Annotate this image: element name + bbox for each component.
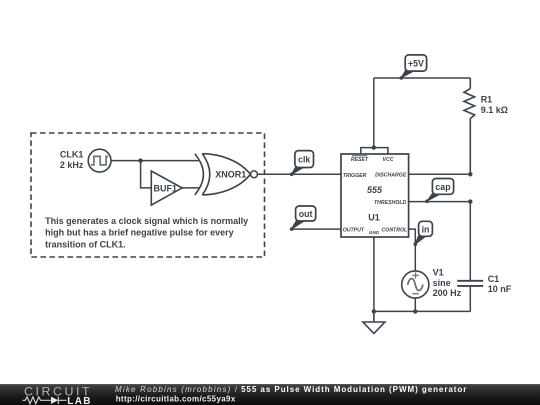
dashed annotation box	[31, 133, 265, 257]
note text	[45, 216, 248, 249]
footer bar	[0, 384, 540, 405]
label R1 9.1 kOhm	[481, 95, 508, 115]
logo CIRCUIT LAB	[23, 385, 93, 405]
svg-text:10 nF: 10 nF	[488, 284, 512, 294]
svg-text:200 Hz: 200 Hz	[433, 288, 462, 298]
wire clock to junction	[111, 160, 141, 162]
svg-text:XNOR1: XNOR1	[215, 170, 246, 180]
svg-text:+5V: +5V	[408, 59, 424, 69]
buffer BUF1	[151, 171, 182, 205]
svg-text:high but has a brief negative: high but has a brief negative pulse for …	[45, 228, 234, 238]
svg-text:U1: U1	[368, 213, 380, 223]
junction threshold	[468, 199, 472, 203]
wire OUTPUT stub	[292, 228, 342, 230]
svg-text:CONTROL: CONTROL	[382, 228, 408, 234]
node junction clock split	[138, 158, 142, 162]
svg-text:LAB: LAB	[67, 396, 91, 405]
svg-text:cap: cap	[435, 182, 451, 192]
wire junction down to BUF1 input	[141, 161, 152, 188]
junction bracket	[372, 145, 376, 149]
svg-text:OUTPUT: OUTPUT	[343, 227, 365, 233]
wire CONTROL to V1	[409, 229, 416, 271]
svg-text:C1: C1	[488, 274, 500, 284]
net flag out	[290, 206, 316, 231]
pin RESET (active low)	[351, 156, 369, 163]
net flag clk	[290, 151, 314, 177]
wire BUF1 output to XNOR bottom input	[182, 187, 200, 189]
svg-text:CLK1: CLK1	[60, 150, 84, 160]
svg-text:555: 555	[367, 185, 383, 195]
IC U1 555 timer body	[341, 154, 409, 237]
svg-text:transition of CLK1.: transition of CLK1.	[45, 239, 126, 249]
svg-text:in: in	[422, 224, 430, 234]
wire GND riser	[373, 237, 375, 311]
wire RESET/VCC top bracket	[361, 148, 388, 154]
wire V1 bottom	[414, 298, 416, 311]
junction ground	[372, 309, 376, 313]
svg-text:RESET: RESET	[351, 157, 369, 163]
svg-text:BUF1: BUF1	[154, 183, 178, 193]
svg-text:sine: sine	[433, 278, 451, 288]
wire THRESHOLD	[409, 201, 471, 203]
svg-text:R1: R1	[481, 95, 493, 105]
junction discharge	[468, 172, 472, 176]
wire bottom rail	[374, 310, 470, 312]
wire top rail	[374, 77, 471, 79]
label C1 10 nF	[488, 274, 512, 294]
svg-text:clk: clk	[298, 154, 310, 164]
voltage source V1	[402, 271, 429, 298]
svg-text:THRESHOLD: THRESHOLD	[374, 200, 407, 206]
svg-text:http://circuitlab.com/c55ya9x: http://circuitlab.com/c55ya9x	[116, 394, 236, 403]
label CLK1 2 kHz	[60, 150, 84, 170]
svg-text:V1: V1	[433, 268, 444, 278]
capacitor C1	[457, 202, 483, 312]
wire VCC feed vertical	[373, 78, 375, 148]
svg-text:out: out	[299, 209, 313, 219]
svg-text:GND: GND	[369, 230, 380, 235]
wire junction to XNOR top input	[141, 160, 200, 162]
svg-text:TRIGGER: TRIGGER	[343, 173, 367, 179]
junction V1 bottom	[413, 309, 417, 313]
net flag cap	[425, 179, 453, 204]
wire XNOR output to TRIGGER	[257, 173, 341, 175]
footer attribution text	[115, 385, 467, 403]
ground symbol	[363, 311, 385, 333]
net flag in	[414, 221, 433, 246]
svg-text:Mike Robbins (mrobbins) / 555: Mike Robbins (mrobbins) / 555 as Pulse W…	[115, 385, 467, 394]
svg-text:This generates a clock signal: This generates a clock signal which is n…	[45, 216, 248, 226]
svg-text:VCC: VCC	[383, 157, 394, 163]
svg-text:2 kHz: 2 kHz	[60, 160, 84, 170]
label V1 sine 200 Hz	[433, 268, 462, 298]
xnor gate XNOR1	[195, 154, 258, 195]
clock source CLK1	[88, 149, 111, 172]
resistor R1	[464, 78, 475, 174]
svg-text:DISCHARGE: DISCHARGE	[375, 173, 407, 179]
svg-text:9.1 kΩ: 9.1 kΩ	[481, 105, 508, 115]
power flag +5V	[399, 55, 426, 80]
wire DISCHARGE	[409, 173, 471, 175]
